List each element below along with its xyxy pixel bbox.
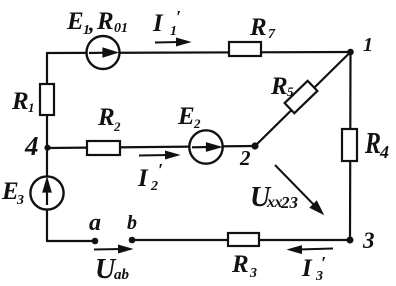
svg-text:R: R [249, 14, 267, 41]
svg-text:I: I [137, 165, 149, 192]
svg-text:ab: ab [114, 267, 130, 283]
svg-text:R: R [11, 88, 29, 115]
svg-text:E: E [66, 8, 84, 35]
svg-text:3: 3 [249, 266, 257, 281]
svg-text:R: R [364, 125, 381, 160]
svg-text:′: ′ [176, 7, 181, 27]
svg-text:R: R [96, 8, 114, 35]
svg-text:1: 1 [28, 100, 35, 115]
svg-text:I: I [152, 10, 164, 37]
svg-text:1: 1 [363, 34, 373, 56]
svg-text:7: 7 [268, 27, 276, 42]
svg-text:2: 2 [150, 179, 158, 194]
svg-text:a: a [89, 210, 101, 236]
svg-text:E: E [177, 103, 195, 130]
svg-text:I: I [301, 255, 313, 282]
svg-text:01: 01 [114, 21, 128, 36]
svg-text:b: b [127, 212, 137, 234]
svg-text:2: 2 [193, 116, 201, 131]
svg-text:2: 2 [113, 119, 121, 134]
svg-text:′: ′ [158, 160, 163, 180]
svg-text:,: , [88, 11, 95, 36]
svg-text:R: R [97, 104, 115, 131]
svg-text:3: 3 [362, 228, 375, 253]
svg-text:2: 2 [239, 146, 251, 170]
svg-text:5: 5 [287, 84, 294, 99]
svg-text:′: ′ [321, 253, 326, 273]
svg-text:23: 23 [280, 193, 299, 212]
svg-text:3: 3 [16, 193, 24, 208]
svg-text:4: 4 [24, 131, 39, 161]
svg-text:R: R [270, 73, 288, 100]
svg-text:R: R [231, 251, 249, 278]
svg-text:4: 4 [379, 142, 389, 162]
